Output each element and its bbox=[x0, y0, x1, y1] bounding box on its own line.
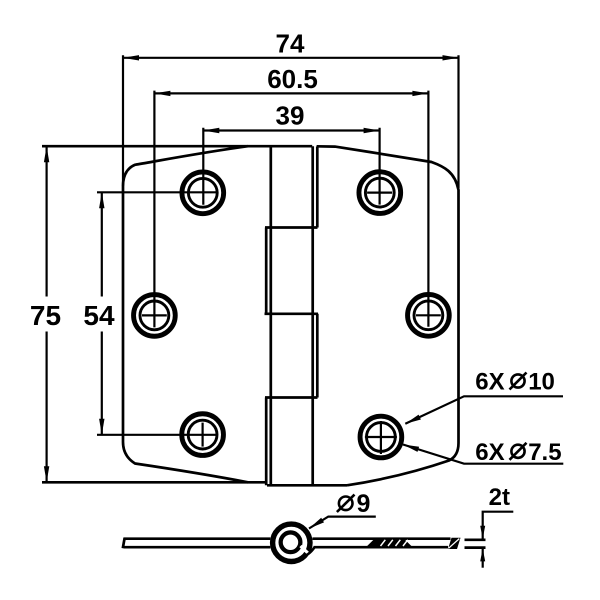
svg-text:2t: 2t bbox=[489, 484, 510, 511]
svg-text:10: 10 bbox=[528, 369, 555, 396]
svg-text:9: 9 bbox=[357, 490, 371, 518]
svg-text:6X: 6X bbox=[475, 439, 504, 466]
svg-text:6X: 6X bbox=[475, 369, 504, 396]
svg-text:39: 39 bbox=[276, 100, 305, 130]
svg-text:75: 75 bbox=[30, 300, 61, 331]
svg-text:7.5: 7.5 bbox=[528, 439, 561, 466]
svg-text:60.5: 60.5 bbox=[267, 64, 318, 94]
svg-text:74: 74 bbox=[276, 29, 305, 59]
svg-text:54: 54 bbox=[83, 300, 115, 331]
